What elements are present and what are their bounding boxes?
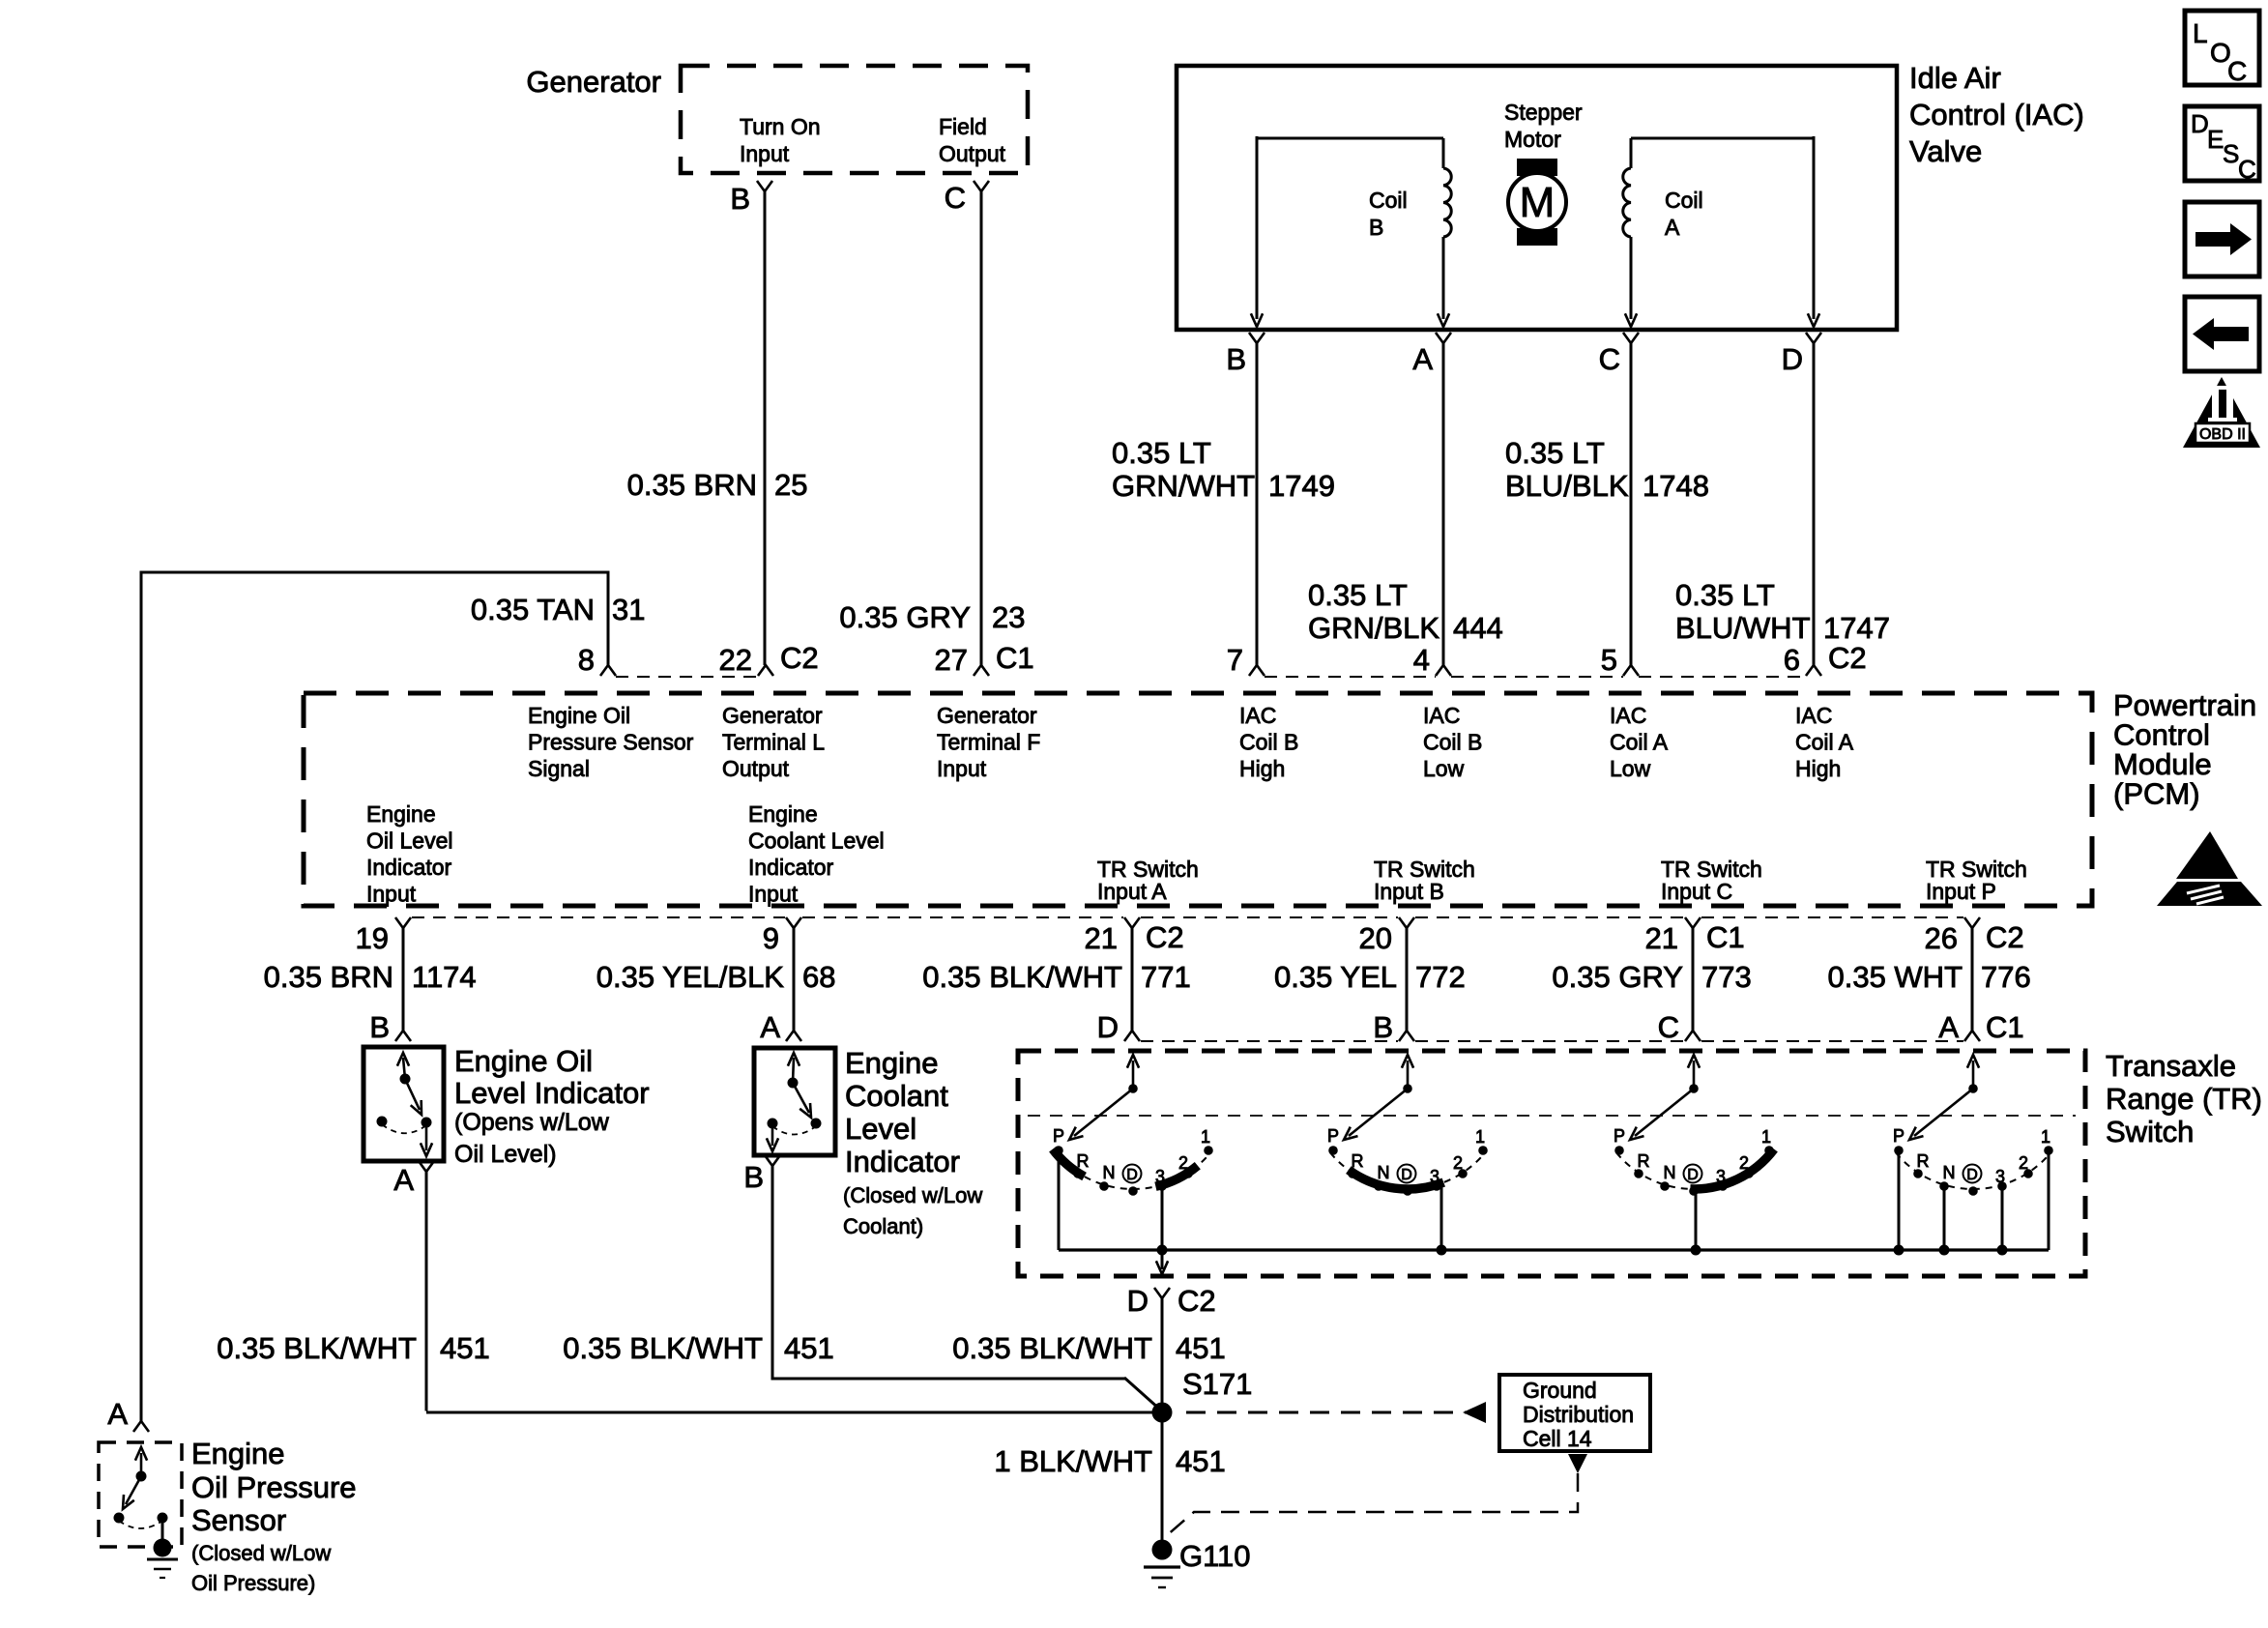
wire coil A top [1631, 137, 1814, 140]
coolant switch contact left [768, 1119, 778, 1129]
TR bus junction [1997, 1245, 2008, 1256]
svg-text:0.35 BRN: 0.35 BRN [627, 468, 757, 502]
svg-text:Coil A: Coil A [1795, 730, 1854, 755]
svg-text:0.35 BLK/WHT: 0.35 BLK/WHT [922, 960, 1122, 994]
wire coil A high leg [1813, 136, 1816, 319]
TR switch fan B selector arm [1349, 1089, 1408, 1136]
svg-text:N: N [1664, 1163, 1676, 1182]
svg-text:C: C [1658, 1010, 1679, 1044]
pressure sensor case ground [154, 1539, 172, 1557]
svg-text:1: 1 [2041, 1127, 2050, 1147]
PCM connector line (top, C2: pins 8-22) [616, 676, 758, 678]
svg-text:Engine: Engine [191, 1437, 285, 1470]
oil indicator pin A connector [419, 1161, 434, 1172]
coolant indicator pin B connector [765, 1155, 780, 1166]
generator pin C connector [974, 181, 989, 191]
TR bus junction [1437, 1245, 1447, 1256]
svg-text:IAC: IAC [1423, 703, 1460, 728]
wire 31 TAN drop to pin 8 [607, 571, 610, 666]
TR switch fan C wiper arrow [1693, 1061, 1696, 1089]
svg-text:C2: C2 [1178, 1284, 1216, 1318]
svg-text:Coolant: Coolant [845, 1079, 948, 1113]
PCM bottom pin 21 connector [1124, 917, 1140, 928]
engine coolant level indicator box [754, 1048, 835, 1155]
svg-text:A: A [107, 1397, 128, 1431]
svg-text:GRN/WHT: GRN/WHT [1112, 469, 1255, 503]
svg-text:0.35 BLK/WHT: 0.35 BLK/WHT [563, 1331, 763, 1365]
svg-text:0.35 LT: 0.35 LT [1505, 436, 1605, 470]
TR switch fan A contact N [1099, 1181, 1109, 1191]
svg-text:Engine: Engine [845, 1046, 939, 1080]
TR bus junction [1894, 1245, 1905, 1256]
wire 773: PCM pin 21 down [1692, 928, 1695, 1031]
svg-text:R: R [1352, 1151, 1364, 1171]
svg-text:772: 772 [1415, 960, 1466, 994]
svg-text:C: C [1599, 342, 1620, 376]
svg-text:8: 8 [578, 643, 595, 677]
TR switch internal dashed line [1028, 1115, 2076, 1117]
wire 771: PCM pin 21 down [1131, 928, 1134, 1031]
lower connector at pin C [1685, 1031, 1701, 1041]
svg-text:Range (TR): Range (TR) [2106, 1082, 2262, 1116]
svg-text:Oil Level: Oil Level [366, 829, 452, 854]
wire 1749: IAC B to PCM pin 7 [1256, 343, 1259, 665]
svg-text:Generator: Generator [526, 65, 661, 99]
svg-text:Input B: Input B [1374, 879, 1444, 904]
svg-text:Generator: Generator [722, 703, 823, 728]
svg-text:Oil Pressure: Oil Pressure [191, 1470, 357, 1504]
svg-text:Level: Level [845, 1112, 916, 1146]
svg-text:IAC: IAC [1239, 703, 1276, 728]
PCM top pin 6 connector [1806, 665, 1821, 676]
svg-text:Switch: Switch [2106, 1115, 2194, 1148]
PCM bottom pin 9 connector [786, 917, 801, 928]
svg-text:Input: Input [937, 756, 987, 781]
pressure sensor ground leg [161, 1518, 164, 1542]
svg-text:B: B [1369, 215, 1383, 240]
svg-text:IAC: IAC [1610, 703, 1646, 728]
svg-text:1174: 1174 [412, 960, 477, 994]
oil level switch arm [405, 1079, 420, 1110]
svg-text:S: S [2223, 139, 2239, 168]
TR switch fan C contact N [1660, 1181, 1670, 1191]
svg-text:P: P [1053, 1126, 1064, 1146]
TR switch fan C contact P [1614, 1146, 1624, 1155]
ground distribution cell box [1499, 1375, 1650, 1451]
TR switch fan B contact arc [1330, 1152, 1485, 1189]
svg-text:Indicator: Indicator [845, 1145, 960, 1178]
pressure sensor contact right [158, 1513, 168, 1524]
TR switch fan P contact 1 [2044, 1146, 2053, 1155]
svg-text:D: D [1097, 1010, 1119, 1044]
svg-text:Coolant): Coolant) [843, 1214, 923, 1238]
svg-text:C: C [2238, 155, 2256, 184]
svg-text:Engine Oil: Engine Oil [454, 1044, 593, 1078]
TR fan P stem wire [1898, 1151, 1901, 1250]
svg-text:P: P [1893, 1126, 1905, 1146]
PCM bottom pin 20 connector [1399, 917, 1414, 928]
PCM connector line (bottom) [412, 916, 785, 918]
TR switch fan A contact D [1128, 1186, 1138, 1196]
svg-text:0.35 LT: 0.35 LT [1112, 436, 1211, 470]
TR switch fan C closed contact segment [1690, 1149, 1774, 1189]
svg-text:Field: Field [939, 114, 987, 139]
lower connector at pin B [1399, 1031, 1414, 1041]
TR switch connector line (top) [1141, 1040, 1398, 1042]
svg-text:5: 5 [1601, 643, 1617, 677]
TR switch fan C contact 3 [1718, 1181, 1728, 1191]
ground G110 [1152, 1540, 1173, 1560]
svg-text:0.35 GRY: 0.35 GRY [1552, 960, 1683, 994]
svg-text:R: R [1917, 1151, 1930, 1171]
svg-text:R: R [1077, 1151, 1090, 1171]
svg-text:Coil: Coil [1665, 188, 1703, 213]
svg-text:BLU/BLK: BLU/BLK [1505, 469, 1629, 503]
svg-text:2: 2 [2019, 1153, 2028, 1173]
svg-text:Coil: Coil [1369, 188, 1408, 213]
svg-text:BLU/WHT: BLU/WHT [1675, 611, 1811, 645]
wire 776: PCM pin 26 down [1971, 928, 1974, 1031]
lower connector at pin A [1964, 1031, 1980, 1041]
TR fan B contact label D (circled) [1398, 1165, 1416, 1183]
svg-text:7: 7 [1227, 643, 1243, 677]
svg-text:Generator: Generator [937, 703, 1037, 728]
svg-text:(Closed w/Low: (Closed w/Low [191, 1541, 331, 1565]
svg-text:Terminal F: Terminal F [937, 730, 1040, 755]
PCM top pin 4 connector [1436, 665, 1451, 676]
svg-text:1748: 1748 [1643, 469, 1709, 503]
TR bus junction [1691, 1245, 1701, 1256]
coil B inductor [1443, 168, 1451, 237]
svg-text:Distribution: Distribution [1523, 1402, 1634, 1427]
ground distribution exit arrow [1568, 1454, 1587, 1473]
svg-text:23: 23 [992, 600, 1025, 634]
TR fan P contact label D (circled) [1963, 1165, 1982, 1183]
PCM top pin 8 connector [600, 665, 616, 676]
svg-text:0.35 YEL/BLK: 0.35 YEL/BLK [596, 960, 785, 994]
svg-text:1: 1 [1201, 1127, 1210, 1147]
pressure sensor arm [126, 1476, 141, 1504]
IAC valve component box [1177, 66, 1897, 330]
TR switch fan B closed contact segment [1349, 1170, 1443, 1189]
dashed route from ground distribution [1166, 1473, 1578, 1536]
TR switch fan A selector arm [1074, 1089, 1133, 1136]
svg-text:High: High [1795, 756, 1841, 781]
svg-text:Signal: Signal [528, 756, 590, 781]
wire 444: IAC A to PCM pin 4 [1442, 343, 1445, 665]
wire coil B top [1257, 137, 1443, 140]
svg-text:Level Indicator: Level Indicator [454, 1076, 650, 1110]
coolant switch arm [793, 1083, 809, 1113]
TR ground exit arrow [1161, 1250, 1164, 1269]
svg-text:0.35 YEL: 0.35 YEL [1274, 960, 1397, 994]
TR switch fan P contact 2 [2023, 1169, 2033, 1178]
pressure sensor contact left [114, 1513, 125, 1524]
svg-text:N: N [1943, 1163, 1956, 1182]
svg-text:26: 26 [1925, 921, 1958, 955]
svg-text:0.35 LT: 0.35 LT [1308, 578, 1408, 612]
PCM top pin 5 connector [1623, 665, 1639, 676]
svg-text:D: D [1126, 1167, 1138, 1183]
TR pin D/C2 lower connector [1154, 1288, 1170, 1298]
svg-text:21: 21 [1085, 921, 1118, 955]
svg-text:(Closed w/Low: (Closed w/Low [843, 1183, 982, 1207]
lower connector at pin D [1124, 1031, 1140, 1041]
svg-text:B: B [1373, 1010, 1393, 1044]
wire 1748: IAC C to PCM pin 5 [1630, 343, 1633, 665]
TR switch fan B wiper arrow [1407, 1061, 1410, 1089]
svg-text:(Opens w/Low: (Opens w/Low [454, 1109, 610, 1136]
svg-text:68: 68 [802, 960, 835, 994]
TR fan A contact label D (circled) [1123, 1165, 1142, 1183]
svg-text:Coil B: Coil B [1423, 730, 1482, 755]
oil level switch pivot [400, 1074, 411, 1085]
svg-text:Oil Level): Oil Level) [454, 1141, 557, 1168]
TR switch fan B contact 1 [1478, 1146, 1488, 1155]
svg-text:E: E [2207, 125, 2224, 154]
svg-text:0.35 GRY: 0.35 GRY [839, 600, 971, 634]
dashed reference to ground distribution [1186, 1411, 1466, 1414]
IAC pin D connector [1806, 333, 1821, 343]
TR switch fan C pivot [1689, 1084, 1699, 1093]
svg-text:M: M [1520, 179, 1556, 226]
svg-text:Oil Pressure): Oil Pressure) [191, 1571, 315, 1595]
wire 23 GRY: generator C to PCM pin 27 [980, 191, 983, 665]
PCM top pin 27 connector [974, 665, 989, 676]
TR switch fan A wiper arrow [1132, 1061, 1135, 1089]
svg-text:0.35 BLK/WHT: 0.35 BLK/WHT [952, 1331, 1152, 1365]
TR switch fan B contact D [1403, 1186, 1412, 1196]
TR switch fan A contact 2 [1183, 1169, 1193, 1178]
svg-text:Output: Output [722, 756, 790, 781]
icon LOC box [2185, 11, 2259, 86]
pressure sensor pivot [136, 1471, 147, 1482]
coolant switch contact right [811, 1119, 822, 1129]
wire 1747: IAC D to PCM pin 6 [1813, 343, 1816, 665]
svg-text:3: 3 [1716, 1167, 1726, 1186]
generator pin B connector [757, 181, 772, 191]
TR fan P stem wire [2001, 1187, 2004, 1250]
TR switch fan B contact P [1328, 1146, 1338, 1155]
generator component box [681, 66, 1028, 173]
coolant switch pivot [788, 1078, 799, 1089]
TR switch fan C selector arm [1635, 1089, 1694, 1136]
TR switch fan P contact 3 [1997, 1181, 2007, 1191]
wire 1 BLK/WHT 451 to G110 [1161, 1422, 1164, 1543]
IAC pin B connector [1249, 333, 1265, 343]
svg-text:D: D [1687, 1167, 1699, 1183]
svg-text:25: 25 [774, 468, 807, 502]
svg-text:C2: C2 [780, 641, 819, 675]
TR fan A stem wire [1058, 1151, 1061, 1250]
svg-text:3: 3 [1430, 1167, 1439, 1186]
PCM bottom pin 21 connector [1685, 917, 1701, 928]
TR switch fan P selector arm [1914, 1089, 1973, 1136]
TR switch fan A contact 3 [1157, 1181, 1167, 1191]
IAC pin C connector [1623, 333, 1639, 343]
TR switch fan A contact arc [1056, 1152, 1210, 1189]
wire coil B high leg [1256, 136, 1259, 319]
icon arrow-left box [2185, 297, 2259, 371]
svg-text:451: 451 [784, 1331, 834, 1365]
TR switch fan A contact R [1073, 1169, 1083, 1178]
oil level switch arrow up [403, 1058, 405, 1079]
svg-text:Idle Air: Idle Air [1909, 61, 2001, 95]
svg-text:Coil A: Coil A [1610, 730, 1669, 755]
svg-text:773: 773 [1701, 960, 1752, 994]
oil pressure sensor pin A connector [133, 1421, 149, 1432]
TR switch fan C contact 1 [1764, 1146, 1774, 1155]
svg-text:1: 1 [1475, 1127, 1485, 1147]
wire 451 from coolant level indicator [771, 1166, 774, 1381]
svg-text:C: C [2227, 56, 2247, 86]
svg-text:Input: Input [748, 882, 799, 907]
svg-text:C1: C1 [1706, 920, 1745, 954]
pressure sensor switch arrow up [140, 1453, 143, 1476]
TR switch fan P contact P [1894, 1146, 1904, 1155]
svg-text:Input: Input [740, 141, 790, 166]
svg-text:C2: C2 [1828, 641, 1867, 675]
svg-text:2: 2 [1178, 1153, 1188, 1173]
coil A inductor [1623, 168, 1631, 237]
svg-text:Sensor: Sensor [191, 1503, 286, 1537]
svg-text:3: 3 [1995, 1167, 2005, 1186]
svg-text:19: 19 [356, 921, 389, 955]
wire 451 from TR switch [1161, 1298, 1164, 1404]
svg-text:IAC: IAC [1795, 703, 1832, 728]
svg-text:0.35 LT: 0.35 LT [1675, 578, 1775, 612]
svg-text:G110: G110 [1179, 1539, 1251, 1573]
engine oil pressure sensor box [99, 1442, 182, 1547]
PCM bottom pin 19 connector [395, 917, 411, 928]
svg-text:1749: 1749 [1268, 469, 1335, 503]
svg-text:GRN/BLK: GRN/BLK [1308, 611, 1439, 645]
TR switch fan P contact arc [1896, 1152, 2050, 1189]
TR switch fan B contact N [1374, 1181, 1383, 1191]
wire 25 BRN: generator B to PCM pin 22 [764, 191, 767, 665]
svg-text:Coolant Level: Coolant Level [748, 829, 885, 854]
svg-text:A: A [393, 1163, 414, 1197]
wire 772: PCM pin 20 down [1406, 928, 1409, 1031]
svg-text:Engine: Engine [748, 801, 818, 827]
svg-text:Low: Low [1423, 756, 1465, 781]
svg-text:B: B [743, 1160, 764, 1194]
TR fan C stem wire [1695, 1190, 1698, 1250]
wire coil B low leg [1442, 237, 1445, 319]
svg-text:Control (IAC): Control (IAC) [1909, 98, 2084, 131]
TR switch fan A contact 1 [1204, 1146, 1213, 1155]
oil level switch travel arc [382, 1124, 426, 1133]
wire 68: PCM pin 9 down [793, 928, 796, 1031]
wire coil A low leg [1630, 237, 1633, 319]
transaxle range switch box [1018, 1051, 2085, 1276]
engine oil level indicator box [363, 1047, 444, 1161]
svg-text:Engine: Engine [366, 801, 436, 827]
svg-text:A: A [760, 1010, 780, 1044]
wire 31 TAN: oil pressure sensor to PCM pin 8 (vertical left) [140, 571, 143, 1422]
icon OBD II triangle [2183, 377, 2260, 448]
PCM bottom pin 26 connector [1964, 917, 1980, 928]
splice S171 [1152, 1403, 1173, 1423]
svg-text:771: 771 [1141, 960, 1191, 994]
svg-text:(PCM): (PCM) [2113, 777, 2200, 811]
svg-text:9: 9 [763, 921, 779, 955]
TR switch fan C contact R [1634, 1169, 1643, 1178]
TR switch fan P contact D [1968, 1186, 1978, 1196]
svg-text:A: A [1412, 342, 1433, 376]
wire 451 from oil level indicator [425, 1172, 428, 1411]
svg-text:P: P [1614, 1126, 1625, 1146]
svg-text:R: R [1638, 1151, 1650, 1171]
svg-text:444: 444 [1453, 611, 1503, 645]
svg-text:451: 451 [1176, 1331, 1226, 1365]
icon DESC box [2185, 106, 2259, 184]
TR switch fan P contact R [1913, 1169, 1923, 1178]
svg-text:4: 4 [1413, 643, 1430, 677]
svg-text:High: High [1239, 756, 1285, 781]
TR bus junction [1939, 1245, 1950, 1256]
svg-text:776: 776 [1981, 960, 2031, 994]
TR fan A stem wire [1161, 1187, 1164, 1250]
TR bus junction [1157, 1245, 1168, 1256]
lower connector at pin A [786, 1031, 801, 1041]
PCM connector line (top, C2: pins 7-4-5-6) [1265, 676, 1436, 678]
svg-text:3: 3 [1155, 1167, 1165, 1186]
svg-text:0.35 WHT: 0.35 WHT [1827, 960, 1963, 994]
svg-text:27: 27 [935, 643, 968, 677]
TR switch fan P contact N [1939, 1181, 1949, 1191]
PCM top pin 7 connector [1249, 665, 1265, 676]
svg-text:C2: C2 [1146, 920, 1184, 954]
svg-text:D: D [1401, 1167, 1412, 1183]
svg-text:Transaxle: Transaxle [2106, 1049, 2236, 1083]
svg-text:D: D [1782, 342, 1803, 376]
TR switch fan A pivot [1128, 1084, 1138, 1093]
svg-text:0.35 TAN: 0.35 TAN [471, 593, 595, 626]
svg-text:N: N [1103, 1163, 1116, 1182]
IAC pin A connector [1436, 333, 1451, 343]
TR switch fan C contact D [1689, 1186, 1699, 1196]
coolant switch arrow up [793, 1058, 794, 1083]
pressure sensor travel arc [119, 1521, 162, 1528]
PCM (Powertrain Control Module) box [304, 693, 2092, 906]
svg-text:2: 2 [1739, 1153, 1749, 1173]
coolant switch arrow down [771, 1123, 774, 1146]
svg-text:Stepper: Stepper [1504, 100, 1583, 125]
svg-text:Input A: Input A [1097, 879, 1167, 904]
TR switch fan A contact P [1054, 1146, 1063, 1155]
TR switch fan B contact R [1348, 1169, 1357, 1178]
svg-text:D: D [1127, 1284, 1149, 1318]
svg-text:B: B [369, 1010, 390, 1044]
TR fan P stem wire [2048, 1151, 2050, 1250]
svg-text:Cell 14: Cell 14 [1523, 1426, 1592, 1451]
svg-text:Coil B: Coil B [1239, 730, 1298, 755]
svg-text:B: B [1226, 342, 1246, 376]
svg-text:451: 451 [440, 1331, 490, 1365]
svg-text:Engine Oil: Engine Oil [528, 703, 630, 728]
svg-text:D: D [1966, 1167, 1978, 1183]
svg-text:1: 1 [1761, 1127, 1771, 1147]
wire 31 TAN horizontal segment [140, 571, 609, 574]
TR switch fan B contact 3 [1432, 1181, 1441, 1191]
svg-text:C1: C1 [1986, 1010, 2024, 1044]
TR switch fan P pivot [1968, 1084, 1978, 1093]
svg-text:C: C [945, 181, 966, 215]
oil level switch arrow down [425, 1122, 428, 1150]
TR switch fan A closed contact segment [1053, 1149, 1085, 1177]
svg-text:Turn On: Turn On [740, 114, 821, 139]
